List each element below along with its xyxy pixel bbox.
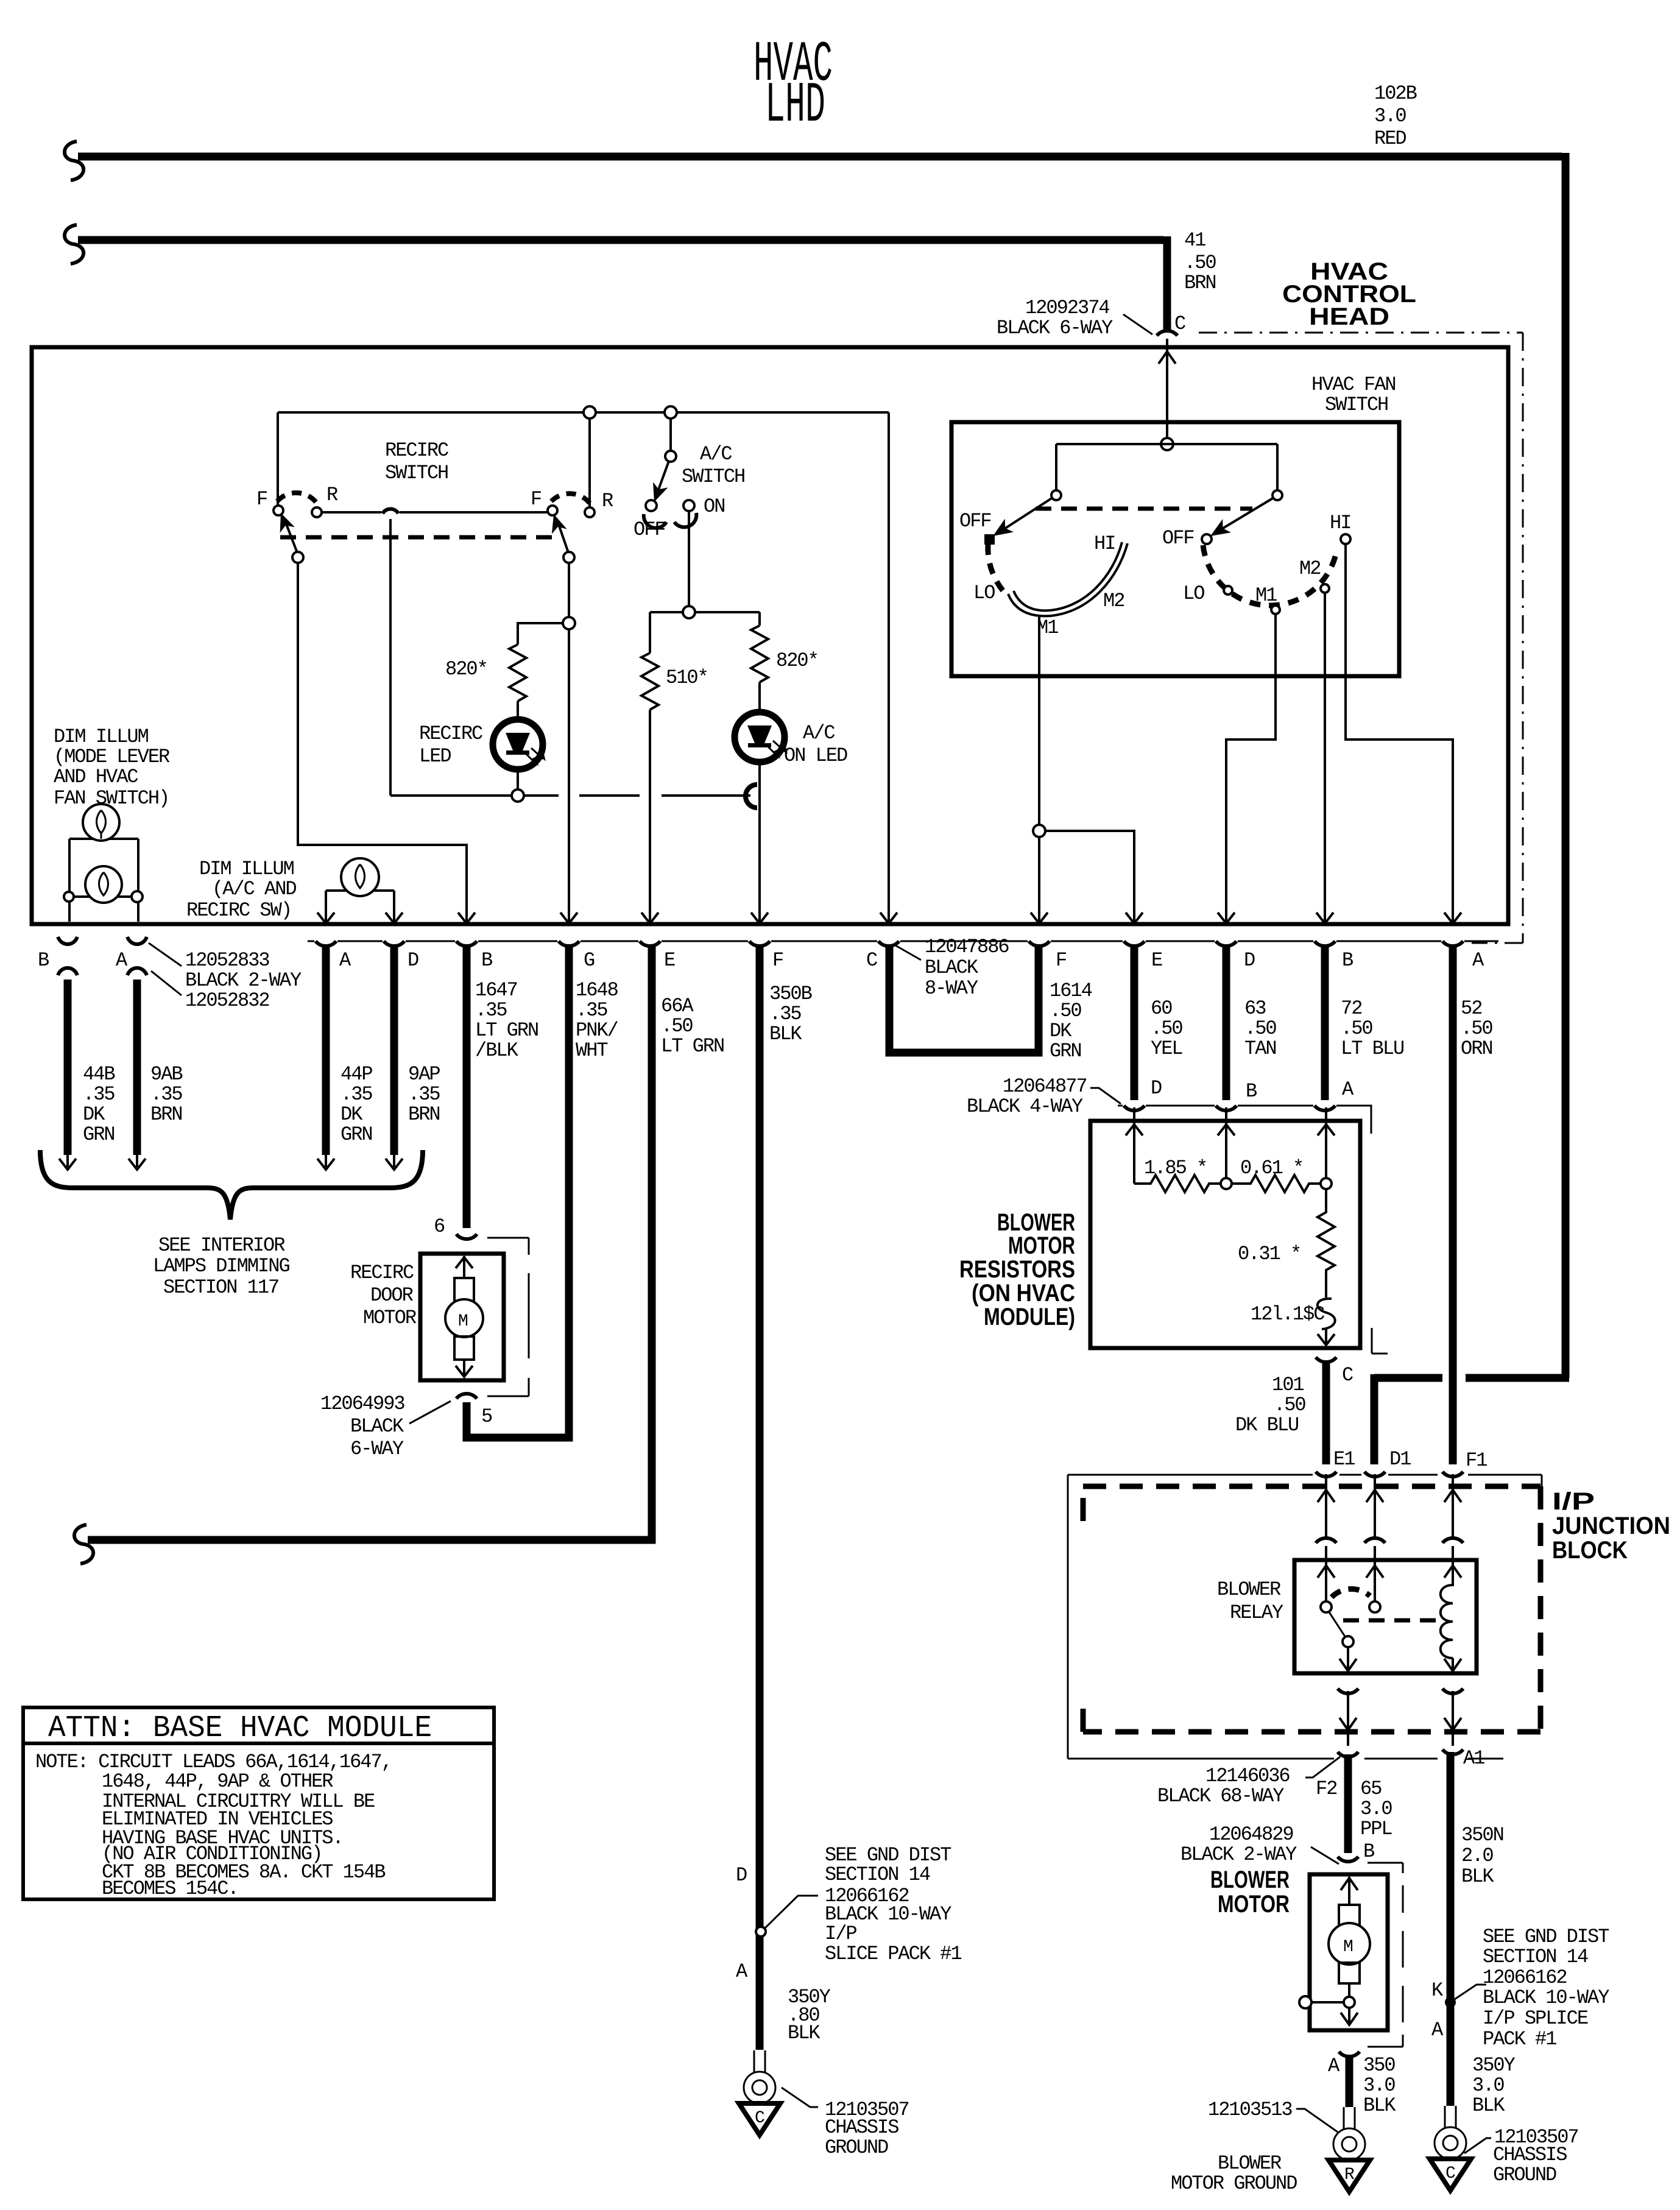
wire: pin D into resistor network with arrow up [1126, 1107, 1143, 1184]
svg-text:C: C [1342, 1364, 1353, 1386]
svg-text:/BLK: /BLK [475, 1039, 519, 1062]
wire break symbol at left end of 41 BRN wire [65, 225, 83, 264]
svg-text:.50: .50 [1050, 1000, 1081, 1022]
relay movable blade [1329, 1611, 1346, 1637]
svg-text:GRN: GRN [341, 1123, 372, 1146]
node: recirc LED bottom junction [512, 789, 524, 802]
svg-text:A/C: A/C [803, 722, 835, 744]
svg-text:PPL: PPL [1360, 1818, 1392, 1840]
A/C switch blade with arrow toward OFF [647, 461, 669, 504]
wire: pole A M1 tap down to junction [1038, 616, 1040, 922]
svg-text:820*: 820* [445, 658, 487, 680]
svg-text:LAMPS DIMMING: LAMPS DIMMING [153, 1255, 289, 1277]
svg-text:RECIRC: RECIRC [385, 439, 448, 462]
title HVAC LHD [754, 33, 833, 138]
svg-text:BRN: BRN [150, 1103, 182, 1126]
svg-text:DK: DK [83, 1103, 105, 1126]
svg-text:6-WAY: 6-WAY [350, 1438, 404, 1460]
label 9AP .35 BRN [408, 1063, 440, 1126]
label 65 3.0 PPL [1360, 1778, 1392, 1840]
svg-text:R: R [602, 490, 613, 512]
svg-text:GROUND: GROUND [825, 2136, 888, 2159]
svg-text:.35: .35 [341, 1083, 372, 1106]
svg-text:SWITCH: SWITCH [1325, 394, 1388, 416]
label A/C ON LED [784, 722, 847, 767]
label 41 .50 BRN [1184, 229, 1216, 294]
svg-text:8-WAY: 8-WAY [925, 977, 978, 1000]
svg-text:44P: 44P [341, 1063, 372, 1086]
LED RECIRC: circled LED with emission arrows [493, 719, 546, 769]
ring terminal at 350B chassis ground [744, 2050, 775, 2103]
svg-text:LT GRN: LT GRN [475, 1019, 538, 1042]
wire: pin A into resistor junction with arrow up [1318, 1107, 1335, 1178]
svg-text:DK: DK [1050, 1020, 1072, 1042]
wire 1647 LT GRN/BLK from pin B down to recirc door motor pin 6 [463, 944, 471, 1228]
svg-text:I/P: I/P [1552, 1488, 1595, 1515]
wire: A/C LED cathode down through connector C to pin F [758, 762, 761, 922]
svg-text:HI: HI [1330, 512, 1350, 534]
wire: pole1 common down and over to pin B [298, 563, 467, 922]
mechanical dashed link of fan switch [1036, 507, 1252, 511]
svg-text:TAN: TAN [1244, 1037, 1276, 1060]
wire: rail corner down to connector pin C of 8-way [888, 412, 890, 922]
blower motor resistors box [1090, 1121, 1360, 1348]
svg-text:A: A [1328, 2055, 1340, 2077]
svg-text:SECTION 14: SECTION 14 [825, 1863, 930, 1886]
label 1614 .50 DK GRN [1050, 980, 1092, 1062]
wire: 510 resistor down to pin E [649, 710, 651, 922]
svg-text:RESISTORS: RESISTORS [959, 1256, 1075, 1283]
connector bump pin A (6-way) [316, 941, 336, 946]
svg-text:.35: .35 [769, 1003, 801, 1025]
svg-text:350N: 350N [1461, 1824, 1503, 1846]
connector face dash-dot line below control head [308, 941, 1498, 942]
svg-text:D: D [736, 1864, 747, 1887]
label 350B .35 BLK [769, 983, 812, 1045]
svg-text:A: A [116, 949, 128, 972]
connector 12092374 BLACK 6-WAY bump at pin C [1157, 331, 1177, 336]
label 350N 2.0 BLK [1461, 1824, 1503, 1888]
relay switch contact from D1 [1369, 1601, 1380, 1612]
connector bump F1 [1442, 1472, 1463, 1477]
svg-text:.50: .50 [1274, 1394, 1305, 1416]
label BLOWER MOTOR (bold) [1210, 1866, 1290, 1918]
wire: brush tap to case terminal [1311, 2001, 1344, 2003]
svg-text:A: A [339, 949, 351, 972]
svg-text:HVAC FAN: HVAC FAN [1311, 373, 1396, 396]
svg-text:0.61 *: 0.61 * [1240, 1157, 1303, 1179]
connector bump pin B (6-way) [456, 941, 477, 946]
svg-text:B: B [1246, 1080, 1257, 1103]
wire 63 TAN from pin D to 4-way pin B [1223, 944, 1230, 1100]
label 12103507 CHASSIS GROUND with leader (right) [1464, 2126, 1578, 2186]
A/C switch throw arcs [644, 514, 666, 528]
svg-text:(MODE LEVER: (MODE LEVER [54, 746, 170, 768]
svg-text:MOTOR: MOTOR [1218, 1891, 1290, 1918]
svg-text:BLOWER: BLOWER [1217, 1578, 1281, 1601]
resistor 1.85 ohm [1134, 1175, 1221, 1192]
svg-text:BLK: BLK [788, 2022, 821, 2044]
blower motor ground symbol R [1329, 2160, 1370, 2192]
svg-text:SWITCH: SWITCH [682, 465, 744, 488]
resistor 0.31 ohm (vertical) [1318, 1189, 1335, 1297]
svg-text:12064829: 12064829 [1209, 1823, 1293, 1846]
label DIM ILLUM (MODE LEVER AND HVAC FAN SWITCH) [54, 725, 170, 810]
wire: rail drop to recirc pole2 R [588, 418, 591, 507]
fan switch pole B OFF contact [1202, 534, 1212, 544]
label 1648 .35 PNK/ WHT [576, 979, 618, 1062]
svg-text:BLK: BLK [1472, 2094, 1505, 2117]
svg-text:41: 41 [1184, 229, 1205, 252]
connector bump pin F (6-way) [749, 941, 770, 946]
connector bump pin G (6-way) [559, 941, 579, 946]
node: fan switch feed junction [1161, 438, 1173, 450]
svg-text:D: D [408, 949, 418, 972]
svg-text:1647: 1647 [475, 979, 517, 1001]
A/C switch pivot [665, 451, 676, 462]
svg-text:BLACK 10-WAY: BLACK 10-WAY [1483, 1986, 1609, 2009]
svg-text:DOOR: DOOR [370, 1284, 414, 1307]
wire: rail drop to recirc pole1 F [277, 412, 279, 506]
label 72 .50 LT BLU [1341, 997, 1403, 1060]
connector bump pin E (8-way) [1124, 941, 1145, 946]
relay feed bump D1 inside block [1364, 1538, 1385, 1543]
blower relay box [1294, 1560, 1477, 1673]
label 12064877 BLACK 4-WAY with leader [967, 1075, 1121, 1118]
wire: coil return down through dashed box with arrow [1444, 1691, 1461, 1746]
svg-text:12052832: 12052832 [185, 989, 269, 1012]
svg-text:12103513: 12103513 [1208, 2099, 1292, 2121]
svg-text:9AB: 9AB [150, 1063, 182, 1086]
svg-text:OFF: OFF [959, 510, 991, 532]
svg-text:12064993: 12064993 [320, 1393, 404, 1415]
svg-text:350: 350 [1363, 2054, 1395, 2077]
label RECIRC LED [419, 722, 482, 768]
svg-text:RECIRC: RECIRC [350, 1262, 414, 1284]
wire 65 PPL from F2 to blower motor pin B [1344, 1754, 1352, 1853]
svg-text:HEAD: HEAD [1309, 303, 1389, 330]
svg-text:I/P SPLICE: I/P SPLICE [1483, 2007, 1588, 2030]
connector half C at LED return to pin F wire [746, 785, 757, 808]
wire: pole B M1 down, over and down to pin D [1226, 614, 1276, 922]
svg-text:C: C [866, 949, 877, 972]
wire: relay common down with arrow to box bottom [1339, 1647, 1357, 1671]
node: junction A/C switch to LED top rail [683, 606, 695, 618]
wire 60 YEL from pin E to 4-way pin D [1131, 944, 1138, 1100]
svg-text:ON: ON [704, 495, 724, 518]
svg-text:.50: .50 [1341, 1017, 1372, 1040]
svg-text:.35: .35 [475, 999, 507, 1022]
svg-text:F: F [772, 949, 783, 972]
blower motor box [1310, 1874, 1388, 2030]
connector bump 4-way pin B [1216, 1106, 1237, 1110]
label HVAC CONTROL HEAD [1282, 258, 1416, 330]
svg-text:1.85 *: 1.85 * [1144, 1157, 1207, 1179]
connector bump pin C (8-way) [878, 941, 899, 946]
resistor 820 (A/C ON LED) [751, 626, 768, 682]
wire D1 into junction block with arrow up [1366, 1474, 1383, 1539]
svg-text:101: 101 [1272, 1374, 1304, 1396]
fan switch pole B pivot contact [1272, 490, 1282, 500]
svg-text:3.0: 3.0 [1374, 105, 1406, 127]
node: rail junction to recirc pole2 R [584, 406, 596, 418]
resistor 510 (A/C request) [641, 653, 658, 710]
label 44P .35 DK GRN [341, 1063, 372, 1146]
relay feed bump E1 inside block [1316, 1538, 1336, 1543]
wire: thermal limiter to pin C with arrow down [1318, 1329, 1335, 1345]
label RECIRC DOOR MOTOR [350, 1262, 417, 1329]
dash bracket right of blower motor [1368, 1863, 1403, 2047]
connector bump pin F (8-way) [1029, 941, 1050, 946]
svg-text:65: 65 [1360, 1778, 1382, 1800]
wire F1 into junction block with arrow up [1444, 1474, 1461, 1539]
svg-text:YEL: YEL [1151, 1037, 1182, 1060]
I/P junction block connector face upper line [1068, 1475, 1542, 1759]
splice on 350B wire [756, 1927, 766, 1936]
svg-text:SECTION 117: SECTION 117 [163, 1276, 278, 1299]
svg-text:BLACK 2-WAY: BLACK 2-WAY [185, 969, 302, 992]
svg-text:BLACK 6-WAY: BLACK 6-WAY [997, 317, 1113, 339]
wire: branch junction over and down to pin E [1045, 831, 1134, 922]
svg-text:C: C [1445, 2164, 1455, 2183]
svg-text:.50: .50 [1151, 1017, 1182, 1040]
wire: rail drop to A/C switch pivot [669, 418, 672, 451]
connector bump pin D (6-way) [384, 941, 404, 946]
svg-text:F1: F1 [1466, 1449, 1487, 1472]
svg-text:12047886: 12047886 [925, 936, 1009, 958]
svg-text:LO: LO [1183, 582, 1204, 605]
fan switch pole B dashed throw arc OFF-LO-M1-M2 [1203, 545, 1336, 605]
connector bump pin E (6-way) [640, 941, 660, 946]
connector 12064877 BLACK 4-WAY face line [1118, 1106, 1371, 1134]
svg-text:MOTOR GROUND: MOTOR GROUND [1171, 2172, 1297, 2195]
wire from pin C into control head to fan switch rail [1166, 339, 1168, 444]
wire 66A LT GRN from pin E down and across to left break [88, 944, 652, 1540]
wire: pole1 R to pole2 F link [322, 511, 548, 514]
svg-text:3.0: 3.0 [1360, 1798, 1392, 1820]
svg-text:B: B [1363, 1840, 1374, 1863]
svg-text:(ON HVAC: (ON HVAC [972, 1280, 1075, 1307]
svg-text:I/P: I/P [825, 1922, 856, 1945]
arrows at control head box bottom edge [317, 913, 1461, 923]
I/P junction block connector face lower line [1068, 1758, 1503, 1760]
svg-text:CHASSIS: CHASSIS [1493, 2144, 1567, 2166]
label SEE INTERIOR LAMPS DIMMING SECTION 117 [153, 1234, 289, 1299]
label 12047886 BLACK 8-WAY with leader [895, 936, 1009, 1000]
relay feed bump F1 inside block [1442, 1538, 1463, 1543]
svg-text:LT BLU: LT BLU [1341, 1037, 1403, 1060]
svg-text:BLOWER: BLOWER [1210, 1866, 1290, 1893]
recirc switch pole 2 wiper blade with arrow to F [546, 512, 574, 563]
connector bump pin 5 (12064993) [456, 1394, 477, 1399]
label 52 .50 ORN [1461, 997, 1492, 1060]
svg-text:B: B [38, 949, 49, 972]
svg-text:3.0: 3.0 [1363, 2074, 1395, 2097]
wire: rail left corner down to 510 resistor [649, 612, 651, 653]
svg-text:1648: 1648 [576, 979, 618, 1001]
connector bump blower motor pin B [1338, 1857, 1358, 1862]
svg-text:D: D [1151, 1077, 1162, 1100]
svg-text:BLK: BLK [1461, 1865, 1494, 1888]
wires from bumps into relay box [1326, 1546, 1453, 1602]
wire: pole B HI down, over and down to pin A [1346, 544, 1453, 922]
arrow up at control head box top edge [1159, 351, 1176, 364]
relay common contact [1343, 1636, 1354, 1647]
node: junction of pole2 common wire and recirc LED branch [563, 617, 575, 629]
node: junction of 0.61 and 0.31 resistors at pin A [1321, 1178, 1332, 1189]
dim illum lamp circuit (A/C and recirc sw) between pins A and D [326, 891, 394, 922]
connector bump E1 [1316, 1472, 1336, 1477]
wire 350N BLK from A1 down to chassis ground [1447, 1752, 1455, 2106]
label DIM ILLUM (A/C AND RECIRC SW) [186, 858, 296, 922]
svg-text:F2: F2 [1316, 1778, 1336, 1800]
connector bump A1 (12146036) [1442, 1749, 1463, 1754]
svg-text:12092374: 12092374 [1025, 297, 1109, 319]
svg-text:RELAY: RELAY [1230, 1601, 1283, 1624]
dash bracket right of recirc door motor [487, 1238, 529, 1396]
wire E1 into junction block with arrow up [1318, 1474, 1335, 1539]
label 66A .50 LT GRN [661, 995, 724, 1057]
recirc switch pole 1: F and R contacts with dashed throw arc [274, 493, 322, 517]
node: rail junction to A/C switch [665, 406, 677, 418]
wire: coil down with arrow to box bottom [1444, 1658, 1461, 1671]
svg-text:BLACK 4-WAY: BLACK 4-WAY [967, 1095, 1083, 1118]
wire 41 BRN: second feed from left break to HVAC control head pin C [78, 236, 1167, 330]
svg-text:M2: M2 [1299, 557, 1320, 580]
svg-text:LO: LO [973, 582, 995, 604]
svg-text:BRN: BRN [1184, 272, 1216, 294]
pin letters of 8-way connector [866, 949, 1484, 972]
svg-text:OFF: OFF [1162, 527, 1194, 549]
svg-text:12l.1$C: 12l.1$C [1251, 1303, 1324, 1326]
svg-text:A: A [1342, 1078, 1354, 1101]
svg-text:510*: 510* [666, 666, 708, 689]
svg-text:BRN: BRN [408, 1103, 440, 1126]
label 12064993 BLACK 6-WAY with leader [320, 1393, 451, 1460]
svg-text:BLK: BLK [1363, 2094, 1396, 2117]
label 44B .35 DK GRN [83, 1063, 115, 1146]
connector bump pin B (8-way) [1315, 941, 1335, 946]
label HVAC FAN SWITCH [1311, 373, 1396, 416]
label SEE GND DIST SECTION 14 12066162 BLACK 10-WAY I/P SLICE PACK #1 with leader [764, 1844, 961, 1965]
svg-text:E1: E1 [1333, 1448, 1355, 1470]
label 350 3.0 BLK [1363, 2054, 1396, 2117]
fan switch pole A pivot contact [1051, 490, 1061, 500]
svg-text:ON LED: ON LED [784, 744, 847, 767]
relay dashed throw arc between contacts [1332, 1589, 1370, 1597]
label 102B 3.0 RED [1374, 82, 1417, 150]
svg-text:RED: RED [1374, 127, 1406, 150]
svg-text:DIM ILLUM: DIM ILLUM [199, 858, 294, 880]
A/C switch ON contact [683, 500, 694, 511]
svg-text:DIM ILLUM: DIM ILLUM [54, 725, 149, 748]
wire: fan switch inner rail [1056, 443, 1277, 445]
svg-text:RECIRC: RECIRC [419, 722, 482, 745]
label 12103513 with leader [1208, 2099, 1338, 2132]
svg-text:.35: .35 [408, 1083, 440, 1106]
fan switch pole B blade with arrow to OFF [1206, 498, 1274, 543]
svg-text:MOTOR: MOTOR [363, 1307, 417, 1329]
chassis ground symbol C (350B) [739, 2103, 780, 2135]
svg-text:WHT: WHT [576, 1039, 607, 1062]
svg-text:E: E [664, 949, 675, 972]
svg-text:BLK: BLK [769, 1023, 802, 1045]
svg-text:2.0: 2.0 [1461, 1845, 1493, 1867]
svg-text:A: A [1431, 2019, 1444, 2041]
arrows up at relay box top [1318, 1566, 1461, 1578]
fan switch pole A solid wiper track LO-M1-M2-HI (double arc) [1008, 542, 1128, 616]
svg-text:RECIRC SW): RECIRC SW) [186, 899, 291, 922]
label 1647 .35 LT GRN /BLK [475, 979, 538, 1062]
svg-text:1614: 1614 [1050, 980, 1092, 1002]
label RECIRC SWITCH [385, 439, 448, 484]
pin letters of 6-way connector [339, 949, 783, 972]
wire: recirc/AC top rail [278, 411, 889, 414]
wire: rail right corner down to 820 resistor [758, 612, 761, 626]
svg-text:F: F [1056, 949, 1066, 972]
svg-text:12146036: 12146036 [1205, 1765, 1290, 1787]
svg-text:350B: 350B [769, 983, 812, 1005]
svg-text:SEE GND DIST: SEE GND DIST [1483, 1926, 1609, 1948]
connector bump blower motor pin A [1339, 2052, 1360, 2056]
ring terminal at 350N chassis ground [1435, 2106, 1466, 2159]
label A/C SWITCH [682, 443, 744, 488]
label 101 .50 DK BLU [1235, 1374, 1305, 1436]
ring terminal at blower motor ground [1333, 2107, 1365, 2160]
splice K 12066162 I/P splice pack on 350N [1445, 1997, 1456, 2008]
svg-text:G: G [584, 949, 595, 972]
in-line hook on link wire at node to DIM ILLUM branch [383, 509, 398, 514]
svg-text:ORN: ORN [1461, 1037, 1492, 1060]
lamp 1 (mode lever illum) [83, 804, 119, 841]
svg-text:63: 63 [1244, 997, 1266, 1020]
svg-text:3.0: 3.0 [1472, 2074, 1504, 2097]
svg-text:66A: 66A [661, 995, 694, 1017]
svg-text:.35: .35 [150, 1083, 182, 1106]
svg-text:72: 72 [1341, 997, 1361, 1020]
svg-text:R: R [1344, 2166, 1355, 2184]
svg-text:DK BLU: DK BLU [1235, 1414, 1298, 1436]
svg-text:12066162: 12066162 [1483, 1966, 1567, 1989]
node: junction of 1.85 and 0.61 resistors at pin B [1221, 1178, 1232, 1189]
wire: hook drop down to LED bottom rail [389, 519, 392, 796]
svg-text:BLOWER: BLOWER [1218, 2152, 1282, 2175]
label 12052833 BLACK 2-WAY 12052832 with leaders [149, 943, 302, 1012]
svg-text:B: B [1342, 949, 1353, 972]
svg-text:12052833: 12052833 [185, 949, 269, 972]
svg-text:60: 60 [1151, 997, 1172, 1020]
terminal circle on motor case [1299, 1996, 1311, 2008]
lamp 3 (A/C recirc illum) [341, 858, 379, 896]
svg-text:D1: D1 [1389, 1448, 1411, 1470]
wire: pole2 common down to pin G [568, 563, 570, 922]
in-line 2-way connector on pin A wire [127, 937, 147, 975]
svg-text:D: D [1244, 949, 1255, 972]
connector bump F2 (12146036) [1338, 1752, 1358, 1757]
resistor 0.61 ohm [1232, 1175, 1321, 1192]
svg-text:F: F [256, 488, 267, 510]
wire: LED bottom rail with crossover gaps at G and E [390, 794, 750, 797]
svg-text:0.31 *: 0.31 * [1238, 1243, 1301, 1265]
HVAC fan switch box [951, 422, 1399, 676]
fan switch pole A OFF contact (filled) [984, 534, 995, 545]
svg-text:9AP: 9AP [408, 1063, 440, 1086]
svg-text:C: C [755, 2109, 764, 2128]
label 12092374 BLACK 6-WAY with leader [997, 297, 1152, 339]
svg-text:M1: M1 [1255, 584, 1277, 607]
fan switch pole A dashed throw arc OFF to LO [988, 544, 1006, 594]
wire 102B RED: top feed from left break, across top, down right side to relay D1 [78, 153, 1569, 1464]
